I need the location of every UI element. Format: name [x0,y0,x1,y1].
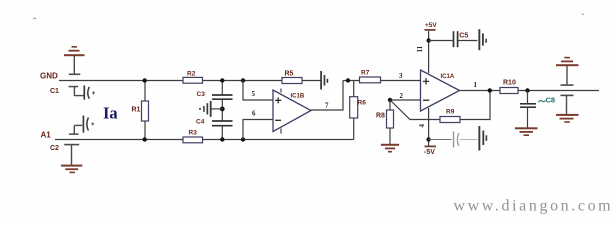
svg-text:R3: R3 [189,130,198,137]
wire bottom rail (A1 net) [55,139,354,141]
svg-text:5: 5 [252,90,256,98]
svg-text:+5V: +5V [425,22,437,29]
capacitor C8 label [539,95,556,104]
svg-text:R5: R5 [285,71,294,78]
stray speck top-left [33,17,36,20]
svg-text:6: 6 [252,110,256,118]
junction pin5 drop [241,78,245,82]
ground after R5 (sideways right) [320,71,328,90]
wire pin 7 output [311,81,343,111]
op-amp IC1A [421,70,460,111]
ground top-left [64,46,85,75]
svg-text:IC1A: IC1A [441,74,455,80]
capacitor bypass (faint) [454,132,478,148]
svg-text:GND: GND [40,72,58,81]
capacitor C3 [212,81,233,109]
resistor R8 [387,100,394,144]
wire pin 4 supply [428,108,430,146]
svg-text:R1: R1 [132,107,141,114]
resistor R9 [440,117,460,123]
svg-text:Ia: Ia [103,104,118,123]
svg-text:R8: R8 [376,113,385,120]
junction C8 tap [525,88,529,92]
junction R1 bottom [143,137,147,141]
junction R9 feedback [488,88,492,92]
ground C5 (sideways right) [478,29,487,50]
junction R1 top [143,78,147,82]
svg-text:www.diangon.com: www.diangon.com [454,198,610,215]
ground C2 below A1 rail [61,144,82,173]
ground C8 [515,127,538,136]
wire pin 6 [243,120,273,140]
svg-text:2: 2 [400,92,404,100]
wire R9 feedback [390,91,490,120]
resistor R6 [350,81,358,140]
junction pin6 drop [241,137,245,141]
resistor R7 [360,77,381,83]
wire pin 11 supply [428,31,430,73]
resistor R1 [142,81,149,140]
svg-text:C8: C8 [546,95,556,104]
svg-text:7: 7 [325,102,329,110]
capacitor C4 [212,109,233,140]
power +5V bar [425,29,436,31]
junction bypass tap [426,137,430,141]
junction C3/C4 mid [220,107,225,112]
svg-text:3: 3 [399,72,403,80]
wire mid node to ground [212,108,223,110]
junction R6/pin7 [346,78,350,82]
wire top rail (GND net) [59,80,321,82]
power -5V bar [425,146,437,148]
svg-text:R6: R6 [358,100,367,107]
op-amp IC1B [273,89,311,134]
wire pin 2 [390,99,421,101]
svg-text:C5: C5 [459,33,468,40]
ground right top (inverted) [556,57,579,86]
ground R8 [381,144,399,153]
junction C4 bottom [220,137,224,141]
wire to bypass cap [429,139,452,141]
svg-text:C2: C2 [50,145,59,152]
wire feedback rail segment [343,80,421,82]
capacitor C5 [454,31,478,47]
svg-text:IC1B: IC1B [291,94,305,100]
wire pin 5 [243,81,273,101]
ground right bottom [556,95,579,123]
junction C3 top [220,78,224,82]
svg-text:R9: R9 [446,109,455,116]
junction C5 tap [426,38,430,42]
junction pin2/R8 [388,98,392,102]
stray speck top-right [582,14,585,15]
svg-text:-5V: -5V [424,149,435,156]
svg-text:4: 4 [418,124,426,128]
svg-text:R2: R2 [187,71,196,78]
resistor R10 [500,88,518,94]
svg-text:R7: R7 [361,70,370,77]
svg-text:A1: A1 [41,131,52,140]
wire output line [460,90,600,92]
resistor R2 [183,77,203,83]
svg-text:C1: C1 [50,88,59,95]
svg-text:C3: C3 [197,91,206,98]
svg-text:11: 11 [416,45,424,52]
svg-text:1: 1 [474,81,478,89]
ground bypass (sideways right) [478,126,487,151]
capacitor C8 [520,91,536,128]
capacitor C1 [69,86,95,100]
svg-text:C4: C4 [196,118,205,125]
ground mid (sideways left) [199,101,212,117]
svg-text:R10: R10 [503,80,516,87]
capacitor A1 input cap [69,116,94,135]
resistor R5 [282,78,302,84]
resistor R3 [183,137,203,143]
wire to C5 [429,40,453,42]
